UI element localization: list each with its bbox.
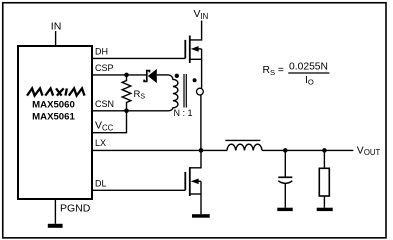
MAXIM logo: [27, 88, 84, 95]
node LX junction: [199, 148, 204, 153]
resistor RS: [122, 75, 131, 111]
ground COUT: [277, 208, 292, 211]
wire CSP: [92, 74, 146, 76]
node RLOAD junction: [322, 148, 327, 153]
IC U1 MAX5060/MAX5061: [18, 46, 92, 199]
Q1 channel bar: [189, 36, 191, 64]
ground Q2 source: [192, 214, 210, 218]
node CSN junction: [124, 109, 129, 114]
wire L1 to VOUT: [262, 149, 353, 151]
Q2 gate bar: [184, 172, 186, 190]
diode D1 triangle: [148, 69, 157, 83]
transformer core bars: [183, 74, 185, 108]
wire CSN: [92, 110, 169, 112]
svg-text:DL: DL: [95, 178, 107, 188]
Q1 body arrow: [191, 46, 199, 52]
wire LX: [92, 149, 227, 151]
Q1 source lead: [190, 58, 202, 60]
svg-text:PGND: PGND: [60, 203, 91, 215]
Q2 source lead: [190, 193, 201, 195]
transistor Q2 (low-side nMOS): [185, 150, 201, 214]
Q2 body arrow: [191, 179, 199, 185]
Q2 source/body vertical to ground: [200, 181, 202, 214]
svg-text:IN: IN: [51, 21, 62, 33]
svg-text:IO: IO: [305, 75, 314, 87]
node CSP junction: [124, 73, 129, 78]
capacitor COUT bottom lead: [284, 183, 286, 208]
svg-text:RS =: RS =: [263, 65, 284, 77]
ground PGND: [48, 224, 63, 228]
wire DL: [92, 189, 185, 191]
svg-text:MAX5060: MAX5060: [32, 100, 75, 111]
transformer T1 secondary winding (N side): [169, 75, 178, 111]
transistor Q1 (high-side nMOS): [185, 36, 201, 89]
Q1 source/body vertical: [201, 49, 203, 88]
polarity dot secondary: [175, 74, 179, 78]
capacitor COUT curved plate: [278, 181, 292, 183]
svg-text:MAX5061: MAX5061: [32, 111, 75, 122]
svg-text:DH: DH: [95, 47, 108, 57]
Q2 channel bar: [189, 167, 191, 196]
capacitor COUT lead: [284, 150, 286, 177]
inductor L1: [227, 144, 262, 150]
wire VIN to Q1 drain: [190, 21, 202, 40]
ground RLOAD: [317, 208, 333, 211]
transformer T1 primary single-turn loop: [197, 88, 204, 95]
inductor L1 core bar: [225, 139, 260, 141]
Q1 gate bar: [184, 40, 186, 59]
resistor RLOAD bottom lead: [323, 196, 325, 208]
resistor RLOAD body: [319, 168, 329, 196]
diode D1 (Schottky) cathode bar: [144, 71, 149, 82]
svg-text:0.0255N: 0.0255N: [289, 62, 328, 73]
node COUT junction: [283, 148, 288, 153]
svg-text:N : 1: N : 1: [173, 108, 192, 118]
wire DH: [92, 57, 185, 59]
wire diode to transformer: [157, 74, 169, 76]
Q2 drain lead: [190, 150, 201, 167]
svg-text:CSP: CSP: [95, 63, 114, 73]
svg-text:CSN: CSN: [95, 99, 114, 109]
resistor RLOAD lead: [323, 150, 325, 168]
formula RS = 0.0255N / IO: [263, 62, 330, 87]
wire IN to box: [55, 31, 57, 45]
capacitor COUT top plate: [278, 176, 292, 178]
polarity dot primary: [193, 78, 197, 82]
wire VCC to CSN node: [92, 111, 127, 133]
svg-text:LX: LX: [95, 138, 106, 148]
wire PGND: [54, 199, 56, 224]
wire primary to LX node: [200, 95, 202, 151]
